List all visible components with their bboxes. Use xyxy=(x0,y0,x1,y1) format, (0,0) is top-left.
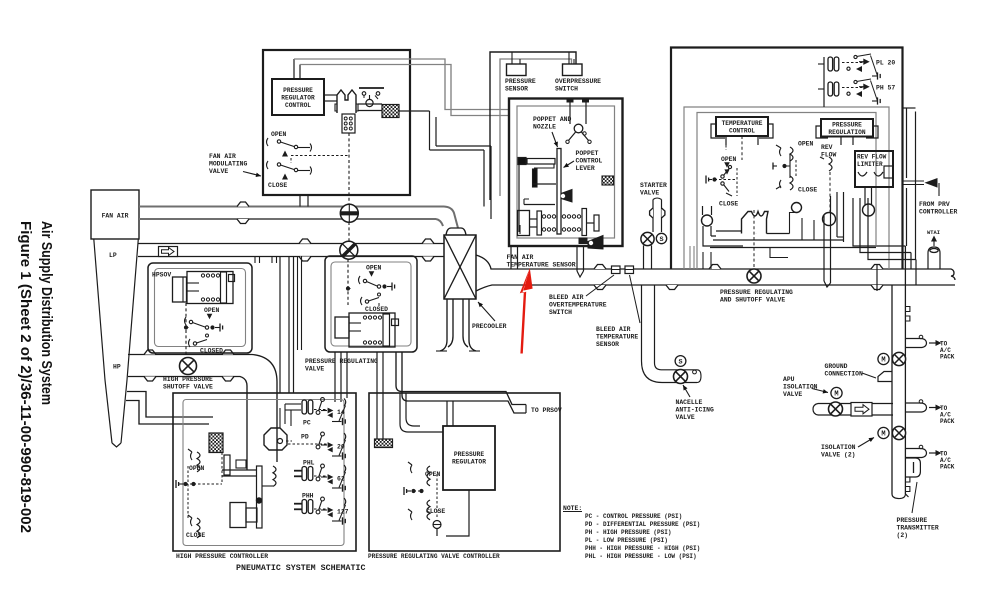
svg-text:SENSOR: SENSOR xyxy=(505,86,528,93)
svg-text:VALVE: VALVE xyxy=(676,414,695,421)
svg-text:LEVER: LEVER xyxy=(576,165,595,172)
svg-text:TRANSMITTER: TRANSMITTER xyxy=(897,525,939,532)
svg-text:TEMPERATURE SENSOR: TEMPERATURE SENSOR xyxy=(507,262,576,269)
svg-text:NOTE:: NOTE: xyxy=(563,505,582,512)
svg-text:PRESSURE REGULATING VALVE CONT: PRESSURE REGULATING VALVE CONTROLLER xyxy=(368,553,500,560)
svg-text:PHL: PHL xyxy=(303,460,315,467)
svg-text:VALVE: VALVE xyxy=(640,190,659,197)
svg-text:PH 57: PH 57 xyxy=(876,84,895,91)
svg-text:M: M xyxy=(881,357,885,365)
svg-text:OVERTEMPERATURE: OVERTEMPERATURE xyxy=(549,302,607,309)
svg-text:PRESSURE REGULATING: PRESSURE REGULATING xyxy=(720,289,793,296)
svg-text:CLOSE: CLOSE xyxy=(268,182,287,189)
svg-text:CONTROL: CONTROL xyxy=(729,128,755,135)
svg-text:PRESSURE: PRESSURE xyxy=(832,122,862,129)
svg-text:PL 20: PL 20 xyxy=(876,59,895,66)
svg-text:VALVE (2): VALVE (2) xyxy=(821,452,856,459)
svg-text:CONNECTION: CONNECTION xyxy=(825,371,864,378)
svg-text:REV FLOW: REV FLOW xyxy=(857,154,887,161)
svg-text:TEMPERATURE: TEMPERATURE xyxy=(596,334,638,341)
svg-text:PHH: PHH xyxy=(302,493,314,500)
svg-text:NOZZLE: NOZZLE xyxy=(533,124,556,131)
svg-text:M: M xyxy=(834,391,838,399)
svg-text:POPPET AND: POPPET AND xyxy=(533,116,572,123)
svg-text:STARTER: STARTER xyxy=(640,182,667,189)
svg-text:VALVE: VALVE xyxy=(305,366,324,373)
svg-text:POPPET: POPPET xyxy=(576,150,599,157)
svg-text:FROM PRV: FROM PRV xyxy=(919,201,950,208)
svg-text:REGULATION: REGULATION xyxy=(828,129,865,136)
svg-text:LIMITER: LIMITER xyxy=(857,161,883,168)
svg-text:PRESSURE: PRESSURE xyxy=(897,517,928,524)
svg-text:CLOSE: CLOSE xyxy=(186,532,205,539)
svg-text:BLEED AIR: BLEED AIR xyxy=(549,294,584,301)
svg-text:PNEUMATIC SYSTEM SCHEMATIC: PNEUMATIC SYSTEM SCHEMATIC xyxy=(236,564,365,573)
svg-text:PD: PD xyxy=(301,434,309,441)
svg-text:FAN AIR: FAN AIR xyxy=(507,254,534,261)
svg-text:OPEN: OPEN xyxy=(204,307,220,314)
svg-text:PHL - HIGH PRESSURE - LOW (PSI: PHL - HIGH PRESSURE - LOW (PSI) xyxy=(585,553,697,560)
svg-text:S: S xyxy=(678,358,682,366)
svg-text:OVERPRESSURE: OVERPRESSURE xyxy=(555,78,601,85)
svg-text:GROUND: GROUND xyxy=(825,363,848,370)
svg-text:(2): (2) xyxy=(897,532,909,539)
svg-text:REGULATOR: REGULATOR xyxy=(281,94,315,101)
svg-text:MODULATING: MODULATING xyxy=(209,161,248,168)
svg-text:TO PRSOV: TO PRSOV xyxy=(531,407,562,414)
svg-text:PRESSURE: PRESSURE xyxy=(283,87,313,94)
svg-text:M: M xyxy=(881,431,885,439)
svg-text:ISOLATION: ISOLATION xyxy=(821,444,856,451)
svg-text:HIGH PRESSURE: HIGH PRESSURE xyxy=(163,376,213,383)
svg-text:REV: REV xyxy=(821,144,833,151)
svg-text:PHH - HIGH PRESSURE - HIGH (PS: PHH - HIGH PRESSURE - HIGH (PSI) xyxy=(585,545,700,552)
svg-text:REGULATOR: REGULATOR xyxy=(452,459,486,466)
svg-text:CLOSED: CLOSED xyxy=(200,348,223,355)
svg-text:OPEN: OPEN xyxy=(271,131,287,138)
svg-text:ANTI-ICING: ANTI-ICING xyxy=(676,407,715,414)
svg-text:CLOSE: CLOSE xyxy=(426,508,445,515)
svg-text:PD - DIFFERENTIAL PRESSURE (PS: PD - DIFFERENTIAL PRESSURE (PSI) xyxy=(585,521,700,528)
svg-text:OPEN: OPEN xyxy=(721,156,737,163)
svg-text:VALVE: VALVE xyxy=(783,391,802,398)
svg-text:PRECOOLER: PRECOOLER xyxy=(472,323,507,330)
svg-text:HPSOV: HPSOV xyxy=(152,272,171,279)
svg-text:TEMPERATURE: TEMPERATURE xyxy=(722,120,763,127)
svg-text:Figure 1 (Sheet 2 of 2)/36-11-: Figure 1 (Sheet 2 of 2)/36-11-00-990-819… xyxy=(17,221,33,533)
svg-text:OPEN: OPEN xyxy=(189,465,205,472)
svg-text:FAN AIR: FAN AIR xyxy=(102,213,129,220)
svg-text:CLOSED: CLOSED xyxy=(365,306,388,313)
svg-text:SENSOR: SENSOR xyxy=(596,341,619,348)
svg-text:PACK: PACK xyxy=(940,464,955,471)
svg-text:HP: HP xyxy=(113,364,121,371)
svg-text:PC: PC xyxy=(303,420,311,427)
svg-text:FAN AIR: FAN AIR xyxy=(209,153,236,160)
svg-text:PL - LOW PRESSURE (PSI): PL - LOW PRESSURE (PSI) xyxy=(585,537,668,544)
svg-text:PRESSURE: PRESSURE xyxy=(454,451,484,458)
svg-text:S: S xyxy=(659,236,663,244)
svg-text:ISOLATION: ISOLATION xyxy=(783,384,818,391)
svg-text:CLOSE: CLOSE xyxy=(719,201,738,208)
svg-text:PC - CONTROL PRESSURE (PSI): PC - CONTROL PRESSURE (PSI) xyxy=(585,513,682,520)
svg-text:BLEED AIR: BLEED AIR xyxy=(596,326,631,333)
svg-text:CONTROL: CONTROL xyxy=(576,158,603,165)
svg-text:NACELLE: NACELLE xyxy=(676,399,703,406)
svg-text:Air Supply Distribution System: Air Supply Distribution System xyxy=(38,221,54,405)
svg-text:PACK: PACK xyxy=(940,418,955,425)
svg-text:PACK: PACK xyxy=(940,354,955,361)
svg-text:AND SHUTOFF VALVE: AND SHUTOFF VALVE xyxy=(720,297,785,304)
svg-text:SWITCH: SWITCH xyxy=(555,86,578,93)
svg-text:PH - HIGH PRESSURE (PSI): PH - HIGH PRESSURE (PSI) xyxy=(585,529,671,536)
svg-text:OPEN: OPEN xyxy=(366,265,382,272)
svg-text:SHUTOFF VALVE: SHUTOFF VALVE xyxy=(163,384,213,391)
svg-text:CONTROLLER: CONTROLLER xyxy=(919,209,958,216)
svg-text:PRESSURE: PRESSURE xyxy=(505,78,536,85)
svg-text:VALVE: VALVE xyxy=(209,168,228,175)
svg-text:OPEN: OPEN xyxy=(798,141,814,148)
svg-text:SWITCH: SWITCH xyxy=(549,309,572,316)
svg-text:APU: APU xyxy=(783,376,795,383)
svg-text:HIGH PRESSURE CONTROLLER: HIGH PRESSURE CONTROLLER xyxy=(176,553,268,560)
svg-text:CONTROL: CONTROL xyxy=(285,102,311,109)
svg-text:WTAI: WTAI xyxy=(927,230,940,236)
svg-text:CLOSE: CLOSE xyxy=(798,187,817,194)
svg-text:LP: LP xyxy=(109,252,117,259)
